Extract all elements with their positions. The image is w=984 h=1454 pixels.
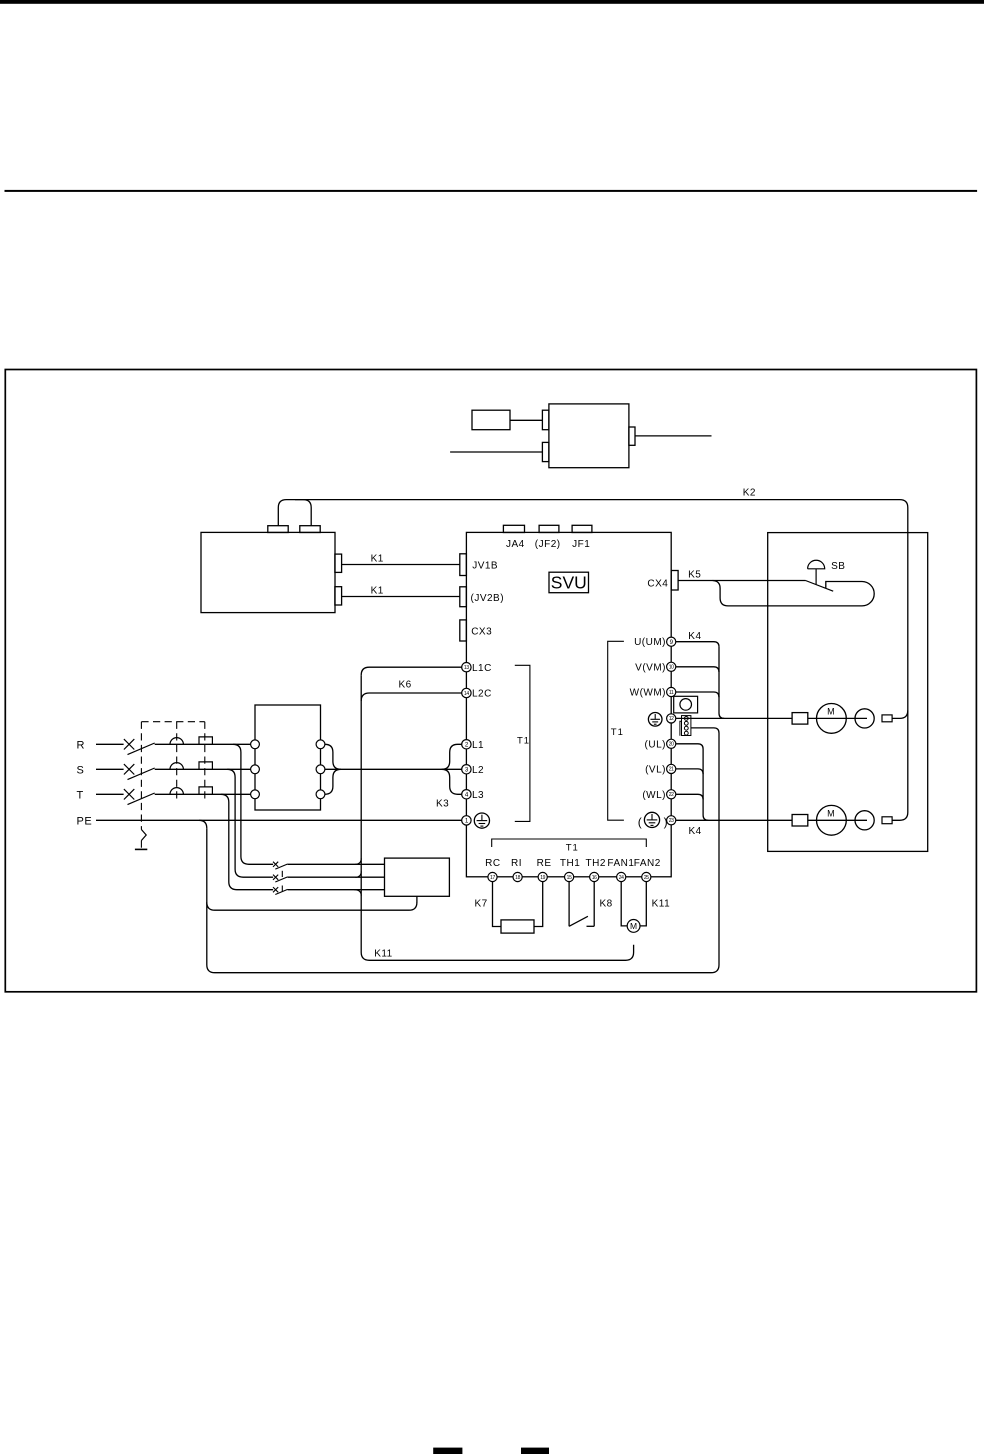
svg-text:K5: K5 <box>688 569 701 580</box>
svg-text:SVU: SVU <box>551 572 587 592</box>
svg-text:FAN1: FAN1 <box>607 858 634 869</box>
svg-text:K2: K2 <box>743 488 756 499</box>
svg-text:K8: K8 <box>600 899 613 910</box>
svg-text:(JF2): (JF2) <box>535 539 561 550</box>
svg-text:(: ( <box>638 815 642 829</box>
svg-text:18: 18 <box>515 875 520 881</box>
svg-text:(WL): (WL) <box>642 790 666 801</box>
svg-text:TH1: TH1 <box>560 858 580 869</box>
svg-text:13: 13 <box>464 665 469 671</box>
svg-text:R: R <box>77 740 85 752</box>
svg-text:K11: K11 <box>374 948 393 959</box>
svg-text:10: 10 <box>669 665 674 671</box>
svg-text:20: 20 <box>669 742 674 748</box>
svg-text:T1: T1 <box>517 736 530 747</box>
svg-text:T1: T1 <box>566 842 579 853</box>
svg-text:K3: K3 <box>436 798 449 809</box>
svg-text:PE: PE <box>77 815 93 827</box>
svg-text:M: M <box>630 921 637 931</box>
svg-text:L2C: L2C <box>472 689 492 700</box>
svg-text:K4: K4 <box>689 826 702 837</box>
svg-text:FAN2: FAN2 <box>634 858 661 869</box>
svg-text:16: 16 <box>592 875 597 881</box>
svg-text:L1C: L1C <box>472 663 492 674</box>
svg-text:K11: K11 <box>652 899 671 910</box>
svg-text:SB: SB <box>831 561 845 572</box>
svg-text:24: 24 <box>619 875 624 881</box>
svg-text:(VL): (VL) <box>645 764 666 775</box>
svg-text:S: S <box>77 765 85 777</box>
svg-text:CX4: CX4 <box>647 579 668 590</box>
svg-text:K7: K7 <box>475 899 488 910</box>
svg-text:12: 12 <box>669 716 674 722</box>
svg-text:25: 25 <box>644 875 649 881</box>
svg-text:U(UM): U(UM) <box>634 637 666 648</box>
svg-text:RC: RC <box>485 858 500 869</box>
svg-text:19: 19 <box>540 875 545 881</box>
svg-text:W(WM): W(WM) <box>630 688 666 699</box>
svg-text:V(VM): V(VM) <box>635 662 666 673</box>
svg-text:JA4: JA4 <box>506 539 525 550</box>
svg-text:JV1B: JV1B <box>472 561 498 572</box>
svg-text:15: 15 <box>567 875 572 881</box>
svg-text:L2: L2 <box>472 765 484 776</box>
svg-text:17: 17 <box>490 875 495 881</box>
svg-text:JF1: JF1 <box>572 539 590 550</box>
svg-text:M: M <box>827 809 835 819</box>
svg-text:CX3: CX3 <box>471 627 492 638</box>
svg-text:TH2: TH2 <box>586 858 606 869</box>
svg-text:21: 21 <box>669 767 674 773</box>
svg-text:K1: K1 <box>371 554 384 565</box>
svg-text:RE: RE <box>537 858 552 869</box>
svg-text:K6: K6 <box>399 679 412 690</box>
svg-text:K1: K1 <box>371 586 384 597</box>
svg-text:T1: T1 <box>611 727 624 738</box>
svg-text:22: 22 <box>669 792 674 798</box>
svg-text:RI: RI <box>511 858 522 869</box>
svg-text:(JV2B): (JV2B) <box>471 593 505 604</box>
svg-text:T: T <box>77 790 84 802</box>
svg-text:L1: L1 <box>472 740 484 751</box>
svg-text:11: 11 <box>669 690 674 696</box>
svg-text:14: 14 <box>464 691 469 697</box>
svg-text:K4: K4 <box>688 631 701 642</box>
svg-text:L3: L3 <box>472 790 484 801</box>
svg-text:23: 23 <box>669 818 674 824</box>
svg-text:): ) <box>664 815 668 829</box>
svg-text:(UL): (UL) <box>645 739 666 750</box>
svg-text:M: M <box>827 707 835 717</box>
